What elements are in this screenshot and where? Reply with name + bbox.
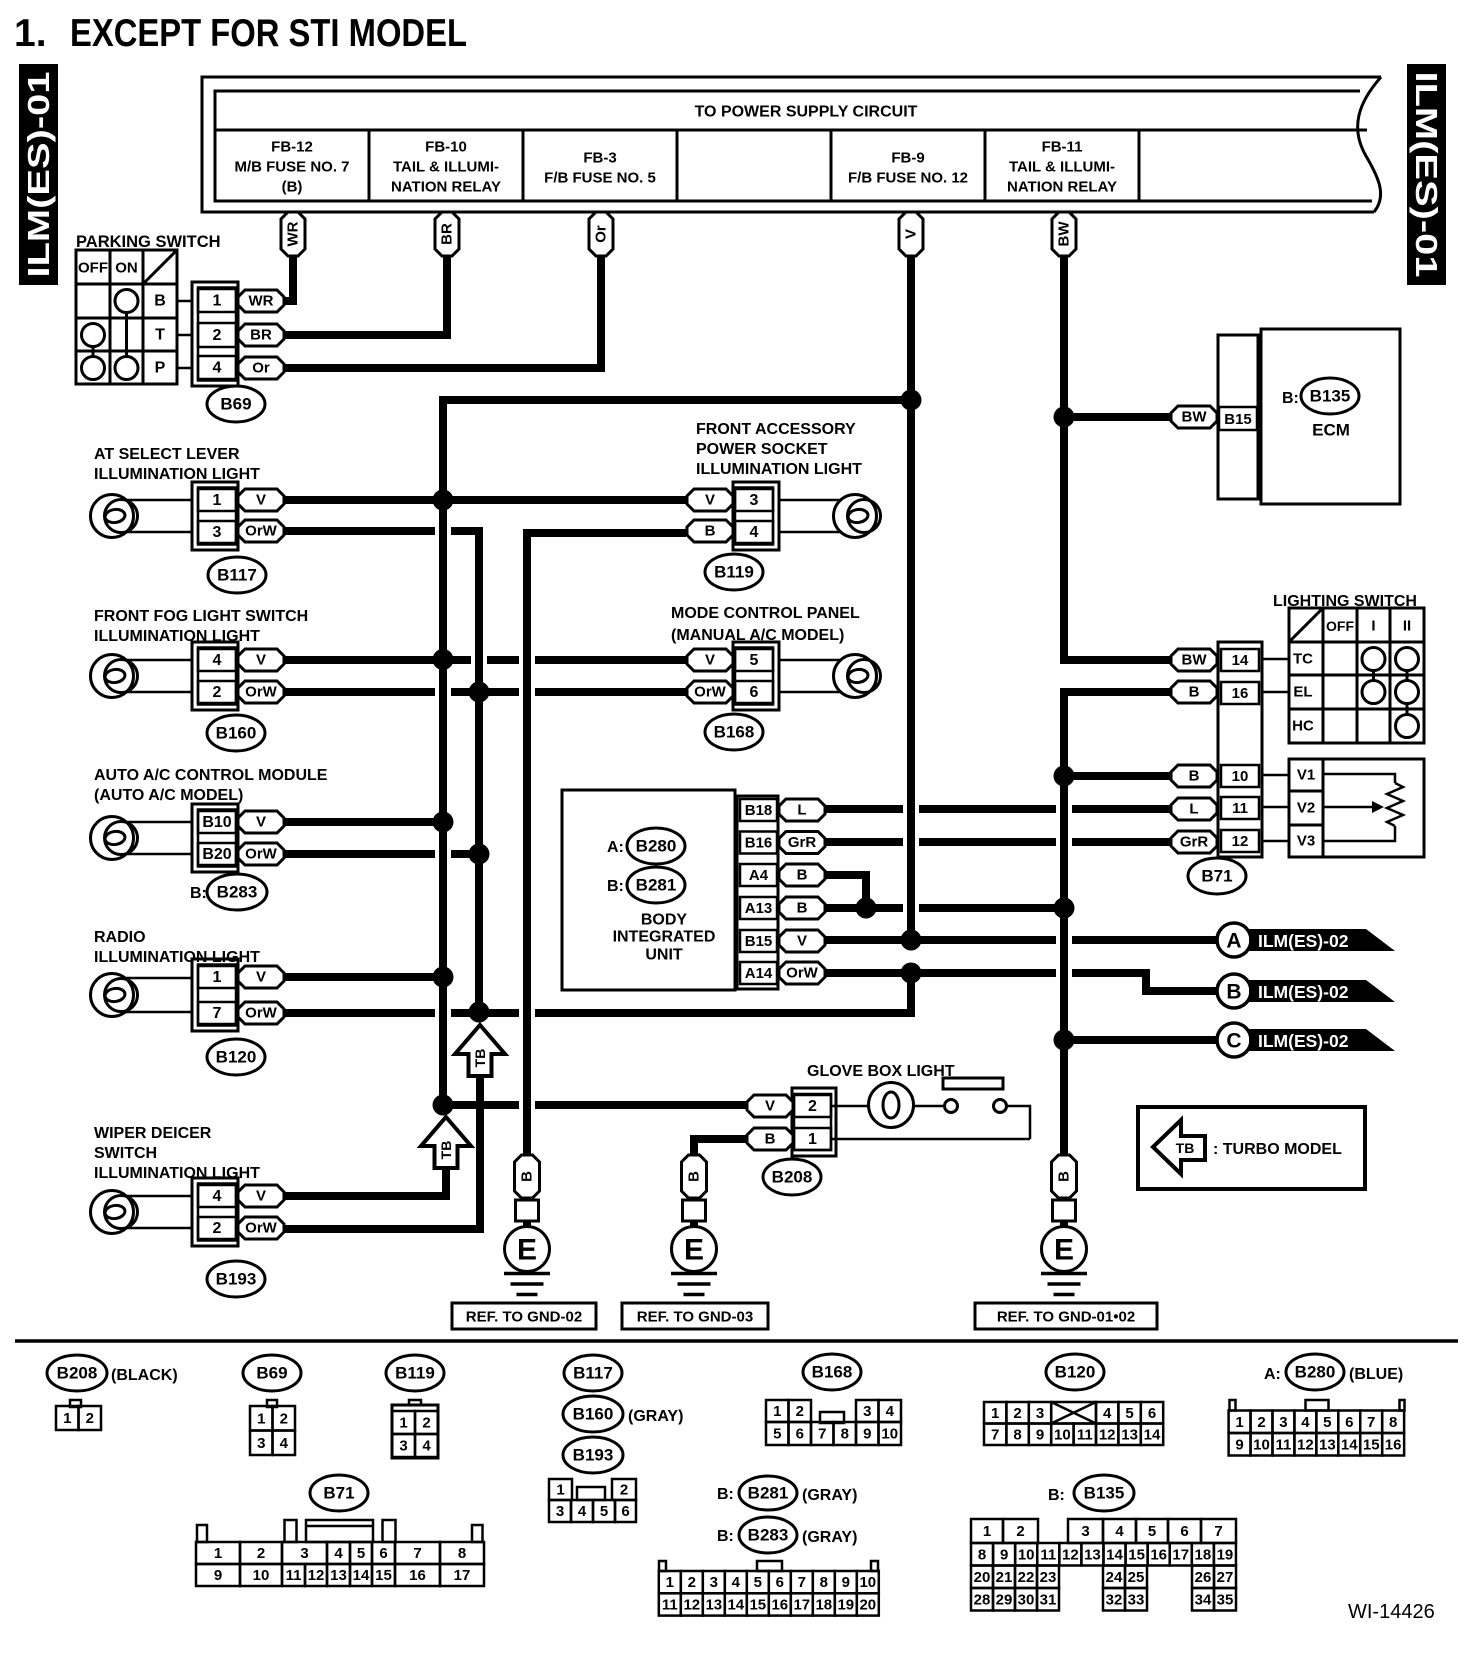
svg-text:2: 2 <box>280 1410 288 1427</box>
tag Or pin4 <box>238 357 284 379</box>
svg-text:9: 9 <box>863 1426 871 1443</box>
wire body unit A14 OrW row with jog to flag B <box>821 973 1218 991</box>
junction flag C <box>1054 1030 1075 1051</box>
svg-text:20: 20 <box>859 1596 876 1613</box>
connector view B71 <box>196 1520 484 1586</box>
tag V body unit B15 <box>779 930 825 952</box>
svg-text:18: 18 <box>1194 1546 1211 1563</box>
svg-text:5: 5 <box>754 1574 762 1591</box>
svg-text:16: 16 <box>1385 1436 1402 1453</box>
svg-text:TC: TC <box>1293 651 1313 668</box>
svg-text:12: 12 <box>1099 1426 1116 1443</box>
B71 to switch leads <box>1262 659 1289 841</box>
svg-text:6: 6 <box>1345 1414 1353 1431</box>
svg-text:2: 2 <box>688 1574 696 1591</box>
svg-text:EXCEPT FOR STI MODEL: EXCEPT FOR STI MODEL <box>70 12 467 55</box>
svg-text:33: 33 <box>1128 1591 1145 1608</box>
tag OrW B168 pin6 <box>687 681 733 703</box>
svg-text:GrR: GrR <box>788 834 817 851</box>
junction B15 V <box>901 930 922 951</box>
svg-text:2: 2 <box>1257 1414 1265 1431</box>
svg-text:8: 8 <box>820 1574 828 1591</box>
svg-text:A14: A14 <box>745 965 773 982</box>
connector B120 body <box>192 959 238 1031</box>
fuse FB-9 F/B FUSE NO. 12 <box>848 150 968 187</box>
svg-text:9: 9 <box>1235 1436 1243 1453</box>
wire auto A/C V row <box>284 818 443 826</box>
svg-text:WI-14426: WI-14426 <box>1348 1601 1435 1623</box>
svg-text:V: V <box>256 1188 266 1205</box>
svg-text:2: 2 <box>1013 1405 1021 1422</box>
svg-text:B135: B135 <box>1310 387 1351 406</box>
label WIPER DEICER SWITCH ILLUMINATION LIGHT <box>94 1125 260 1182</box>
svg-text:TB: TB <box>1176 1140 1195 1156</box>
svg-text:3: 3 <box>710 1574 718 1591</box>
svg-text:F/B FUSE NO. 5: F/B FUSE NO. 5 <box>544 170 656 187</box>
tag B glove box pin1 <box>747 1128 793 1150</box>
svg-text:OFF: OFF <box>1326 618 1354 634</box>
svg-text:V: V <box>797 933 807 950</box>
svg-text:V: V <box>705 492 715 509</box>
svg-text:REF. TO GND-01•02: REF. TO GND-01•02 <box>997 1309 1135 1326</box>
svg-text:16: 16 <box>1150 1546 1167 1563</box>
svg-text:T: T <box>155 327 165 344</box>
svg-text:1: 1 <box>808 1131 817 1148</box>
wire glove box B to ground <box>694 1139 749 1155</box>
svg-text:2: 2 <box>808 1098 817 1115</box>
svg-text:B160: B160 <box>216 724 257 743</box>
oval B283 with B: prefix <box>190 874 267 910</box>
flag B ILM(ES)-02 <box>1217 974 1395 1008</box>
svg-text:ILM(ES)-01: ILM(ES)-01 <box>21 72 56 278</box>
svg-text:RADIO: RADIO <box>94 929 146 946</box>
oval B168 <box>705 714 763 750</box>
svg-text:13: 13 <box>705 1596 722 1613</box>
oval B119 legend <box>386 1355 444 1391</box>
svg-text:3: 3 <box>863 1403 871 1420</box>
label RADIO ILLUMINATION LIGHT <box>94 929 260 966</box>
svg-text:OrW: OrW <box>245 1005 278 1022</box>
label FRONT ACCESSORY POWER SOCKET ILLUMINATION LIGHT <box>696 421 862 478</box>
junction auto A/C OrW <box>469 844 490 865</box>
svg-text:7: 7 <box>413 1545 421 1562</box>
svg-text:TO POWER SUPPLY CIRCUIT: TO POWER SUPPLY CIRCUIT <box>695 104 918 121</box>
power supply block outer frame with torn right edge <box>202 77 1381 212</box>
svg-text:B193: B193 <box>216 1270 257 1289</box>
lamp B119 <box>834 495 881 538</box>
svg-text:FB-12: FB-12 <box>271 139 313 156</box>
svg-text:30: 30 <box>1018 1591 1035 1608</box>
svg-text:C: C <box>1226 1030 1241 1053</box>
svg-text:WR: WR <box>285 221 302 246</box>
svg-text:10: 10 <box>1253 1436 1270 1453</box>
svg-text:B: B <box>797 900 808 917</box>
svg-text:1: 1 <box>991 1405 999 1422</box>
svg-text:2: 2 <box>257 1545 265 1562</box>
svg-text:B135: B135 <box>1084 1484 1125 1503</box>
wire B ground drop x527 <box>523 529 531 1155</box>
tag B B71 pin16 <box>1171 681 1217 703</box>
junction B160 OrW <box>469 682 490 703</box>
svg-text:ILM(ES)-02: ILM(ES)-02 <box>1258 931 1349 951</box>
svg-text:(AUTO A/C MODEL): (AUTO A/C MODEL) <box>94 787 243 804</box>
svg-text:(GRAY): (GRAY) <box>802 1529 857 1546</box>
svg-text:B119: B119 <box>714 563 754 582</box>
svg-text:B208: B208 <box>57 1364 98 1383</box>
oval B168 legend <box>803 1354 861 1390</box>
svg-text:FRONT ACCESSORY: FRONT ACCESSORY <box>696 421 856 438</box>
svg-text:7: 7 <box>798 1574 806 1591</box>
wire ECM branch BW <box>1064 413 1171 421</box>
svg-text:11: 11 <box>286 1567 302 1584</box>
svg-text:14: 14 <box>353 1567 370 1584</box>
connector view B135 <box>971 1519 1236 1611</box>
wire B119 B row to ground drop <box>527 529 686 537</box>
svg-text:10: 10 <box>1232 768 1249 785</box>
svg-text:1: 1 <box>214 1545 222 1562</box>
oval A: B280 legend (BLUE) <box>1264 1354 1403 1390</box>
wire body unit A4 B jog down <box>821 875 866 908</box>
junction radio V <box>433 967 454 988</box>
fuse tag Or <box>589 212 613 256</box>
oval B120 <box>207 1039 265 1075</box>
svg-text:HC: HC <box>1292 718 1314 735</box>
oval B160 legend <box>563 1396 683 1432</box>
junction ECM BW <box>1054 407 1075 428</box>
svg-text:10: 10 <box>1054 1426 1071 1443</box>
svg-text:(B): (B) <box>282 179 303 196</box>
svg-text:B283: B283 <box>217 883 258 902</box>
svg-text:B: B <box>765 1131 776 1148</box>
body unit pin strip <box>737 796 778 989</box>
svg-text:6: 6 <box>796 1426 804 1443</box>
tag V B283 pin B10 <box>238 811 284 833</box>
svg-text:1: 1 <box>213 492 222 509</box>
svg-text:12: 12 <box>308 1567 325 1584</box>
svg-text:(GRAY): (GRAY) <box>628 1408 683 1425</box>
oval B119 <box>705 554 763 590</box>
svg-text:2: 2 <box>213 684 222 701</box>
wire wiper deicer V row via TB arrow <box>284 1170 446 1196</box>
svg-text:1: 1 <box>556 1482 564 1499</box>
svg-text:5: 5 <box>1148 1523 1156 1540</box>
flag A ILM(ES)-02 <box>1217 923 1395 957</box>
flag C ILM(ES)-02 <box>1217 1023 1395 1057</box>
svg-text:1: 1 <box>773 1403 781 1420</box>
wire body unit L row to B71 pin 11 <box>821 805 1171 813</box>
lamp B160 <box>91 655 138 698</box>
tag BW ECM B15 <box>1171 406 1217 428</box>
svg-text:OrW: OrW <box>694 684 727 701</box>
svg-text:B283: B283 <box>748 1526 789 1545</box>
wire glove box V row <box>446 1101 749 1109</box>
ECM connector strip <box>1218 335 1258 499</box>
body integrated unit box <box>562 790 735 990</box>
svg-text:Or: Or <box>252 360 270 377</box>
svg-text:4: 4 <box>1115 1523 1124 1540</box>
svg-text:WIPER DEICER: WIPER DEICER <box>94 1125 212 1142</box>
lamp B120 <box>91 974 138 1017</box>
svg-text:V: V <box>765 1098 775 1115</box>
svg-text:FB-9: FB-9 <box>891 150 924 167</box>
oval B71 legend <box>310 1475 368 1511</box>
svg-text:OFF: OFF <box>78 260 108 277</box>
parking switch grid <box>76 250 177 384</box>
svg-text:6: 6 <box>750 684 759 701</box>
svg-text:B10: B10 <box>202 814 231 831</box>
svg-text:(GRAY): (GRAY) <box>802 1487 857 1504</box>
wire V vertical bus from FB-9 <box>907 256 915 940</box>
svg-text:B71: B71 <box>1201 867 1232 886</box>
svg-text:1.: 1. <box>14 12 47 55</box>
tag V B119 pin3 <box>687 489 733 511</box>
svg-text:B280: B280 <box>1295 1363 1336 1382</box>
svg-text:A:: A: <box>607 839 624 856</box>
svg-text:10: 10 <box>253 1567 270 1584</box>
svg-text:GLOVE BOX LIGHT: GLOVE BOX LIGHT <box>807 1063 955 1080</box>
svg-text:REF. TO GND-03: REF. TO GND-03 <box>637 1309 753 1326</box>
tag GrR B71 pin12 <box>1171 831 1217 853</box>
oval B: B283 legend (GRAY) <box>717 1517 857 1553</box>
svg-text:16: 16 <box>771 1596 788 1613</box>
tag V B160 pin4 <box>238 649 284 671</box>
svg-text:3: 3 <box>213 524 222 541</box>
parking switch contacts <box>82 290 139 380</box>
svg-text:L: L <box>1189 801 1198 818</box>
fuse tag V <box>899 212 923 256</box>
svg-text:II: II <box>1403 618 1411 635</box>
svg-text:Or: Or <box>593 225 610 243</box>
svg-text:NATION RELAY: NATION RELAY <box>1007 179 1117 196</box>
svg-text:B20: B20 <box>202 846 231 863</box>
svg-text:V: V <box>256 969 266 986</box>
svg-text:B15: B15 <box>745 933 773 950</box>
svg-text:ILM(ES)-02: ILM(ES)-02 <box>1258 982 1349 1002</box>
svg-text:28: 28 <box>974 1591 991 1608</box>
separator line <box>15 1339 1458 1343</box>
svg-text:16: 16 <box>409 1567 426 1584</box>
svg-text:20: 20 <box>974 1569 991 1586</box>
lighting switch rheostat box <box>1289 759 1424 857</box>
divider under TO POWER SUPPLY CIRCUIT <box>215 129 1367 132</box>
lamp B120 leads <box>126 978 192 1012</box>
tag L B71 pin11 <box>1171 798 1217 820</box>
svg-text:E: E <box>684 1234 704 1267</box>
svg-text:B117: B117 <box>217 566 257 585</box>
left page label bar ILM(ES)-01 <box>19 64 58 285</box>
connector view B281/B283 <box>659 1561 879 1616</box>
lamp B117 leads <box>126 500 192 532</box>
svg-text:27: 27 <box>1217 1569 1234 1586</box>
fuse tag BW <box>1052 212 1076 256</box>
svg-text:1: 1 <box>1235 1414 1243 1431</box>
svg-text:ILLUMINATION LIGHT: ILLUMINATION LIGHT <box>94 466 260 483</box>
svg-text:B168: B168 <box>812 1363 853 1382</box>
svg-text:4: 4 <box>213 652 222 669</box>
connector view B120 <box>984 1402 1163 1445</box>
svg-text:6: 6 <box>1148 1405 1156 1422</box>
svg-text:5: 5 <box>773 1426 781 1443</box>
svg-text:B119: B119 <box>395 1364 435 1383</box>
tag B body unit A4 <box>779 864 825 886</box>
wire BW vertical from FB-11 to B71 pin 14 <box>1064 256 1171 660</box>
junction A14 OrW <box>901 963 922 984</box>
oval B193 legend <box>563 1437 623 1473</box>
svg-text:FRONT FOG LIGHT SWITCH: FRONT FOG LIGHT SWITCH <box>94 608 308 625</box>
svg-text:3: 3 <box>257 1435 265 1452</box>
svg-text:31: 31 <box>1040 1591 1057 1608</box>
glove box light circuit thin wires <box>831 1106 1030 1139</box>
svg-text:12: 12 <box>1297 1436 1314 1453</box>
right page label bar ILM(ES)-01 <box>1407 64 1446 285</box>
fuse FB-12 M/B FUSE NO. 7 (B) <box>234 139 349 196</box>
svg-text:32: 32 <box>1106 1591 1123 1608</box>
oval B208 legend <box>47 1355 178 1391</box>
svg-text:B120: B120 <box>216 1048 257 1067</box>
svg-text:FB-10: FB-10 <box>425 139 467 156</box>
svg-text:B208: B208 <box>772 1168 813 1187</box>
tag V B120 pin1 <box>238 966 284 988</box>
label BODY INTEGRATED UNIT <box>613 912 716 964</box>
wire body unit A13 B row to B vertical <box>821 904 1064 912</box>
svg-text:M/B FUSE NO. 7: M/B FUSE NO. 7 <box>234 159 349 176</box>
svg-text:4: 4 <box>422 1438 431 1455</box>
label MODE CONTROL PANEL (MANUAL A/C MODEL) <box>671 605 860 644</box>
ground E middle (glove box) <box>671 1155 717 1295</box>
svg-text:ON: ON <box>115 260 138 277</box>
svg-text:9: 9 <box>1000 1546 1008 1563</box>
svg-text:2: 2 <box>213 327 222 344</box>
turbo arrow TB on OrW bus <box>455 1025 505 1076</box>
svg-text:E: E <box>517 1234 537 1267</box>
tag OrW B160 pin2 <box>238 681 284 703</box>
svg-text:V3: V3 <box>1297 833 1315 850</box>
power supply inner box <box>215 91 1372 201</box>
svg-text:22: 22 <box>1018 1569 1035 1586</box>
svg-text:BR: BR <box>250 327 272 344</box>
svg-text:B:: B: <box>607 878 624 895</box>
lamp B117 <box>91 495 138 538</box>
svg-text:11: 11 <box>1040 1546 1056 1563</box>
junction radio OrW <box>469 1002 490 1023</box>
svg-text:1: 1 <box>399 1415 407 1432</box>
wire B117 V row <box>284 496 686 504</box>
fuse FB-11 TAIL & ILLUMINATION RELAY <box>1007 139 1117 196</box>
svg-text:5: 5 <box>357 1545 365 1562</box>
svg-text:6: 6 <box>621 1503 629 1520</box>
svg-text:8: 8 <box>978 1546 986 1563</box>
wire flag C branch from B vertical <box>1064 1036 1218 1044</box>
connector B168 body <box>733 642 779 710</box>
svg-text:AUTO A/C CONTROL MODULE: AUTO A/C CONTROL MODULE <box>94 767 328 784</box>
wire B160 OrW row to B168 OrW <box>284 688 686 696</box>
svg-text:4: 4 <box>886 1403 895 1420</box>
svg-text:B: B <box>705 523 716 540</box>
svg-text:2: 2 <box>422 1415 430 1432</box>
svg-text:3: 3 <box>399 1438 407 1455</box>
connector B119 body <box>733 482 779 550</box>
tag OrW B117 pin3 <box>238 520 284 542</box>
svg-text:17: 17 <box>454 1567 471 1584</box>
svg-text:MODE CONTROL PANEL: MODE CONTROL PANEL <box>671 605 860 622</box>
svg-text:13: 13 <box>330 1567 347 1584</box>
connector B117 body <box>192 482 238 550</box>
svg-text:REF. TO GND-02: REF. TO GND-02 <box>466 1309 582 1326</box>
svg-text:1: 1 <box>213 969 222 986</box>
connector B193 body <box>192 1178 238 1246</box>
lamp B193 leads <box>126 1196 192 1228</box>
svg-text:B: B <box>797 867 808 884</box>
svg-text:B193: B193 <box>573 1446 614 1465</box>
oval B193 <box>207 1261 265 1297</box>
svg-text:V2: V2 <box>1297 800 1315 817</box>
svg-text:21: 21 <box>996 1569 1013 1586</box>
svg-text:B15: B15 <box>1224 411 1252 428</box>
svg-text:B160: B160 <box>573 1405 614 1424</box>
svg-text:7: 7 <box>991 1426 999 1443</box>
svg-text:OrW: OrW <box>245 1220 278 1237</box>
svg-text:6: 6 <box>1180 1523 1188 1540</box>
svg-text:POWER SOCKET: POWER SOCKET <box>696 441 828 458</box>
svg-text:4: 4 <box>280 1435 289 1452</box>
tag V glove box pin2 <box>747 1095 793 1117</box>
svg-text:8: 8 <box>841 1426 849 1443</box>
svg-text:V: V <box>903 229 920 239</box>
tag WR pin1 <box>238 290 284 312</box>
svg-text:BODY: BODY <box>641 912 688 929</box>
svg-text:5: 5 <box>1323 1414 1331 1431</box>
svg-text:4: 4 <box>213 360 222 377</box>
svg-text:BR: BR <box>439 223 456 245</box>
wire B71 pin 16 B to ground vertical <box>1064 692 1171 1155</box>
svg-text:ECM: ECM <box>1312 421 1350 440</box>
svg-text:GrR: GrR <box>1180 834 1209 851</box>
svg-text:B117: B117 <box>573 1364 613 1383</box>
svg-text:15: 15 <box>1363 1436 1380 1453</box>
svg-text:AT SELECT LEVER: AT SELECT LEVER <box>94 446 240 463</box>
svg-text:B:: B: <box>190 885 207 902</box>
tag BW B71 pin14 <box>1171 649 1217 671</box>
connector view B208 <box>56 1400 101 1430</box>
oval B: B135 in ECM <box>1282 378 1359 414</box>
svg-text:12: 12 <box>683 1596 700 1613</box>
tag B body unit A13 <box>779 897 825 919</box>
svg-text:BW: BW <box>1182 409 1208 426</box>
junction B71 pin10 B <box>1054 766 1075 787</box>
oval B117 <box>208 557 266 593</box>
svg-text:24: 24 <box>1106 1569 1123 1586</box>
svg-text:7: 7 <box>1214 1523 1222 1540</box>
svg-text:18: 18 <box>815 1596 832 1613</box>
wire WR drop to B69 pin 1 <box>284 256 293 301</box>
wire Or drop to B69 pin 4 <box>284 256 601 368</box>
svg-text:6: 6 <box>776 1574 784 1591</box>
svg-text:B69: B69 <box>256 1364 287 1383</box>
svg-text:1: 1 <box>63 1410 71 1427</box>
svg-text:BW: BW <box>1056 221 1073 247</box>
lamp B160 leads <box>126 660 192 692</box>
svg-text:V: V <box>256 492 266 509</box>
svg-text:14: 14 <box>727 1596 744 1613</box>
svg-text:19: 19 <box>837 1596 854 1613</box>
wire B71 pin 10 B branch <box>1064 772 1171 780</box>
lamp B283 leads <box>126 822 192 854</box>
svg-text:10: 10 <box>1018 1546 1035 1563</box>
svg-text:OrW: OrW <box>786 965 819 982</box>
svg-text:5: 5 <box>1125 1405 1133 1422</box>
svg-text:11: 11 <box>662 1596 678 1613</box>
svg-text:11: 11 <box>1232 800 1248 817</box>
